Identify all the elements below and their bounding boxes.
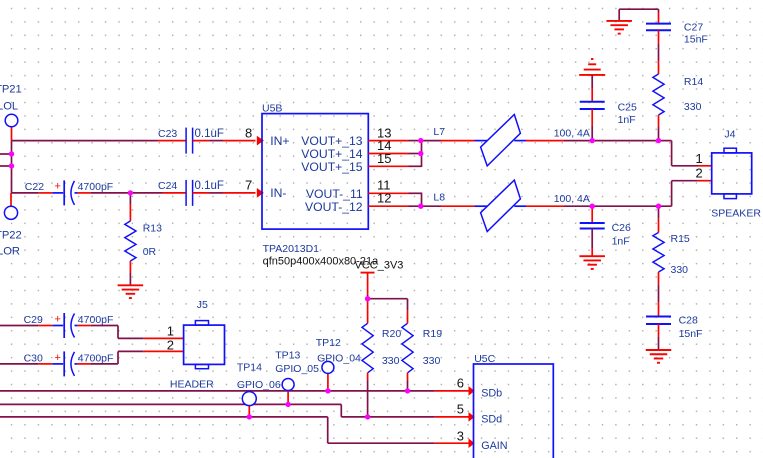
svg-text:1nF: 1nF (612, 236, 630, 248)
svg-text:C27: C27 (684, 21, 703, 33)
svg-text:R19: R19 (423, 328, 442, 340)
svg-text:+: + (55, 180, 61, 192)
svg-text:TP12: TP12 (316, 337, 341, 349)
svg-text:3: 3 (457, 429, 464, 444)
svg-text:100, 4A: 100, 4A (554, 193, 590, 205)
svg-text:HEADER: HEADER (170, 379, 214, 391)
svg-text:C26: C26 (612, 222, 631, 234)
svg-text:7: 7 (245, 177, 252, 192)
svg-text:VOUT-_12: VOUT-_12 (305, 200, 363, 214)
svg-text:R13: R13 (143, 222, 162, 234)
svg-text:VCC_3V3: VCC_3V3 (355, 260, 404, 272)
svg-text:8: 8 (245, 125, 252, 140)
svg-text:R20: R20 (382, 328, 401, 340)
svg-text:15: 15 (377, 151, 391, 166)
svg-text:TP21: TP21 (0, 84, 22, 96)
svg-text:L7: L7 (433, 126, 445, 138)
svg-text:J4: J4 (724, 129, 735, 141)
svg-text:100, 4A: 100, 4A (554, 127, 590, 139)
svg-text:VOUT+_13: VOUT+_13 (301, 134, 363, 148)
svg-text:R14: R14 (684, 76, 703, 88)
svg-text:IN-: IN- (270, 186, 286, 200)
svg-text:GPIO_06: GPIO_06 (237, 379, 281, 391)
svg-text:0.1uF: 0.1uF (195, 180, 224, 192)
svg-text:+: + (55, 352, 61, 364)
svg-text:0R: 0R (143, 246, 157, 258)
svg-text:330: 330 (423, 355, 441, 367)
svg-text:SDd: SDd (481, 413, 502, 425)
svg-text:330: 330 (684, 101, 702, 113)
svg-text:C24: C24 (158, 180, 177, 192)
svg-text:TP13: TP13 (275, 350, 300, 362)
svg-text:R15: R15 (671, 233, 690, 245)
svg-text:4700pF: 4700pF (78, 314, 114, 326)
svg-text:TP14: TP14 (237, 361, 262, 373)
svg-text:C30: C30 (24, 353, 43, 365)
svg-text:15nF: 15nF (679, 328, 703, 340)
svg-text:1nF: 1nF (618, 114, 636, 126)
svg-text:4700pF: 4700pF (78, 181, 114, 193)
svg-text:VOUT-_11: VOUT-_11 (306, 187, 363, 201)
svg-text:IN+: IN+ (270, 134, 289, 148)
svg-text:SPEAKER: SPEAKER (711, 208, 761, 220)
svg-text:4700pF: 4700pF (78, 353, 114, 365)
svg-text:GAIN: GAIN (481, 440, 507, 452)
svg-text:LOR: LOR (0, 246, 20, 258)
svg-text:C25: C25 (618, 102, 637, 114)
svg-text:GPIO_04: GPIO_04 (317, 353, 361, 365)
svg-text:U5B: U5B (262, 103, 282, 115)
svg-text:U5C: U5C (474, 353, 495, 365)
svg-text:12: 12 (377, 190, 391, 205)
svg-text:C22: C22 (25, 181, 44, 193)
svg-text:J5: J5 (197, 299, 208, 311)
svg-text:15nF: 15nF (684, 34, 708, 46)
svg-text:L8: L8 (433, 191, 445, 203)
svg-text:5: 5 (457, 401, 464, 416)
svg-text:+: + (55, 313, 61, 325)
svg-text:1: 1 (167, 323, 174, 338)
svg-text:330: 330 (671, 264, 689, 276)
svg-text:TP22: TP22 (0, 229, 22, 241)
svg-text:0.1uF: 0.1uF (195, 128, 224, 140)
svg-text:VOUT+_15: VOUT+_15 (301, 160, 363, 174)
svg-text:C28: C28 (679, 314, 698, 326)
svg-text:2: 2 (696, 165, 703, 180)
svg-text:1: 1 (696, 151, 703, 166)
svg-text:C29: C29 (24, 314, 43, 326)
svg-text:TPA2013D1: TPA2013D1 (263, 243, 320, 255)
svg-text:LOL: LOL (0, 100, 18, 112)
svg-text:C23: C23 (158, 128, 177, 140)
svg-text:330: 330 (382, 355, 400, 367)
svg-text:2: 2 (167, 338, 174, 353)
svg-text:GPIO_05: GPIO_05 (275, 363, 319, 375)
svg-text:SDb: SDb (481, 387, 502, 399)
svg-text:6: 6 (457, 375, 464, 390)
